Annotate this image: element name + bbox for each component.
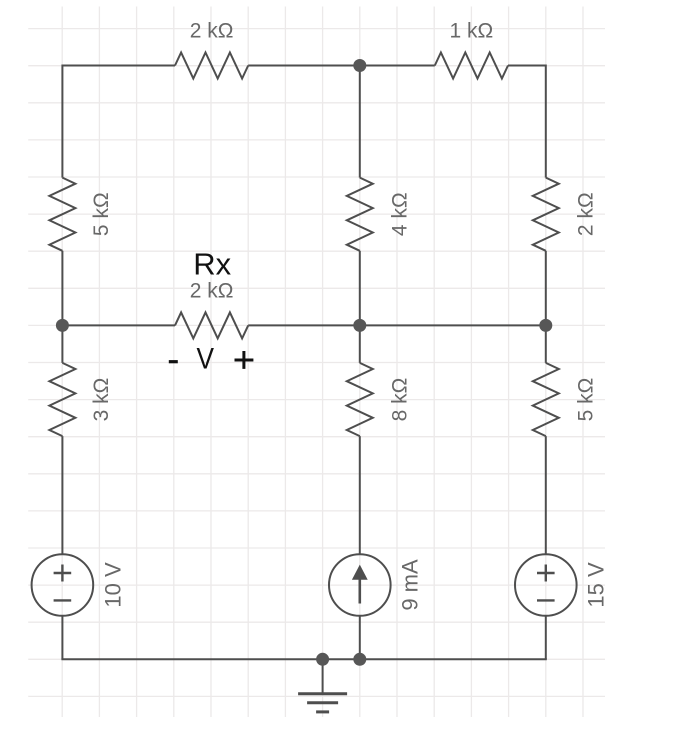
svg-text:3 kΩ: 3 kΩ [90, 378, 113, 422]
wire top-middle: between 2k resistor and center node [248, 65, 435, 67]
wire left rail: 5k to 3k through left-mid node [61, 251, 63, 363]
wire top-left: top rail left segment with corner down the left rail [62, 66, 175, 178]
node left-mid junction [56, 319, 69, 332]
resistor 1 kΩ (top right horizontal) [435, 53, 508, 79]
resistor 8 kΩ (middle lower) [347, 363, 373, 436]
node top-center junction [353, 59, 366, 72]
label + (voltage polarity plus) [235, 351, 254, 369]
resistor 2 kΩ (right upper) [533, 178, 559, 251]
resistor Rx 2 kΩ (middle horizontal) [175, 312, 248, 338]
resistor 4 kΩ (middle upper) [347, 178, 373, 251]
wire right rail: 5k to 15V source [545, 436, 547, 554]
current source 9 mA (middle) [329, 554, 391, 616]
svg-text:8 kΩ: 8 kΩ [388, 378, 411, 422]
wire left rail: 3k to 10V source [61, 436, 63, 554]
svg-text:Rx: Rx [193, 247, 231, 282]
svg-text:2 kΩ: 2 kΩ [574, 192, 597, 236]
svg-text:5 kΩ: 5 kΩ [574, 378, 597, 422]
svg-text:2 kΩ: 2 kΩ [190, 19, 234, 42]
svg-text:1 kΩ: 1 kΩ [450, 19, 494, 42]
wire middle rail: 8k to 9mA source [359, 436, 361, 554]
svg-text:V: V [196, 342, 214, 375]
resistor 5 kΩ (right lower) [533, 363, 559, 436]
node center-mid junction [353, 319, 366, 332]
node right-mid junction [539, 319, 552, 332]
ground [298, 659, 347, 712]
wire middle horizontal: Rx to right-mid node [248, 324, 546, 326]
resistor 2 kΩ (top left horizontal) [175, 53, 248, 79]
wire right rail: 2k to 5k through right-mid node [545, 251, 547, 363]
voltage source 15 V (right) [515, 554, 577, 616]
wire middle horizontal: left-mid node to Rx [62, 324, 175, 326]
svg-text:10 V: 10 V [100, 562, 125, 608]
wire left rail: 10V source to bottom rail [61, 616, 63, 660]
resistor 5 kΩ (left upper) [49, 178, 75, 251]
wire bottom rail [61, 658, 546, 660]
label - (voltage polarity minus) [169, 360, 178, 363]
wire middle rail: 9mA source to bottom rail [359, 616, 361, 660]
svg-text:4 kΩ: 4 kΩ [388, 192, 411, 236]
wire middle branch top: center node down to 4k resistor [359, 66, 361, 178]
wire right rail: 15V source to bottom rail [545, 616, 547, 660]
svg-text:15 V: 15 V [584, 562, 609, 608]
voltage source 10 V (left) [32, 554, 94, 616]
wire top-right: from 1k resistor to right corner and down [508, 66, 546, 178]
wire middle rail: 4k to 8k through center-mid node [359, 251, 361, 363]
node ground junction on bottom rail [316, 653, 329, 666]
node bottom-center junction [353, 653, 366, 666]
svg-text:5 kΩ: 5 kΩ [90, 192, 113, 236]
svg-text:2 kΩ: 2 kΩ [190, 279, 234, 302]
resistor 3 kΩ (left lower) [49, 363, 75, 436]
svg-text:9 mA: 9 mA [398, 559, 423, 611]
